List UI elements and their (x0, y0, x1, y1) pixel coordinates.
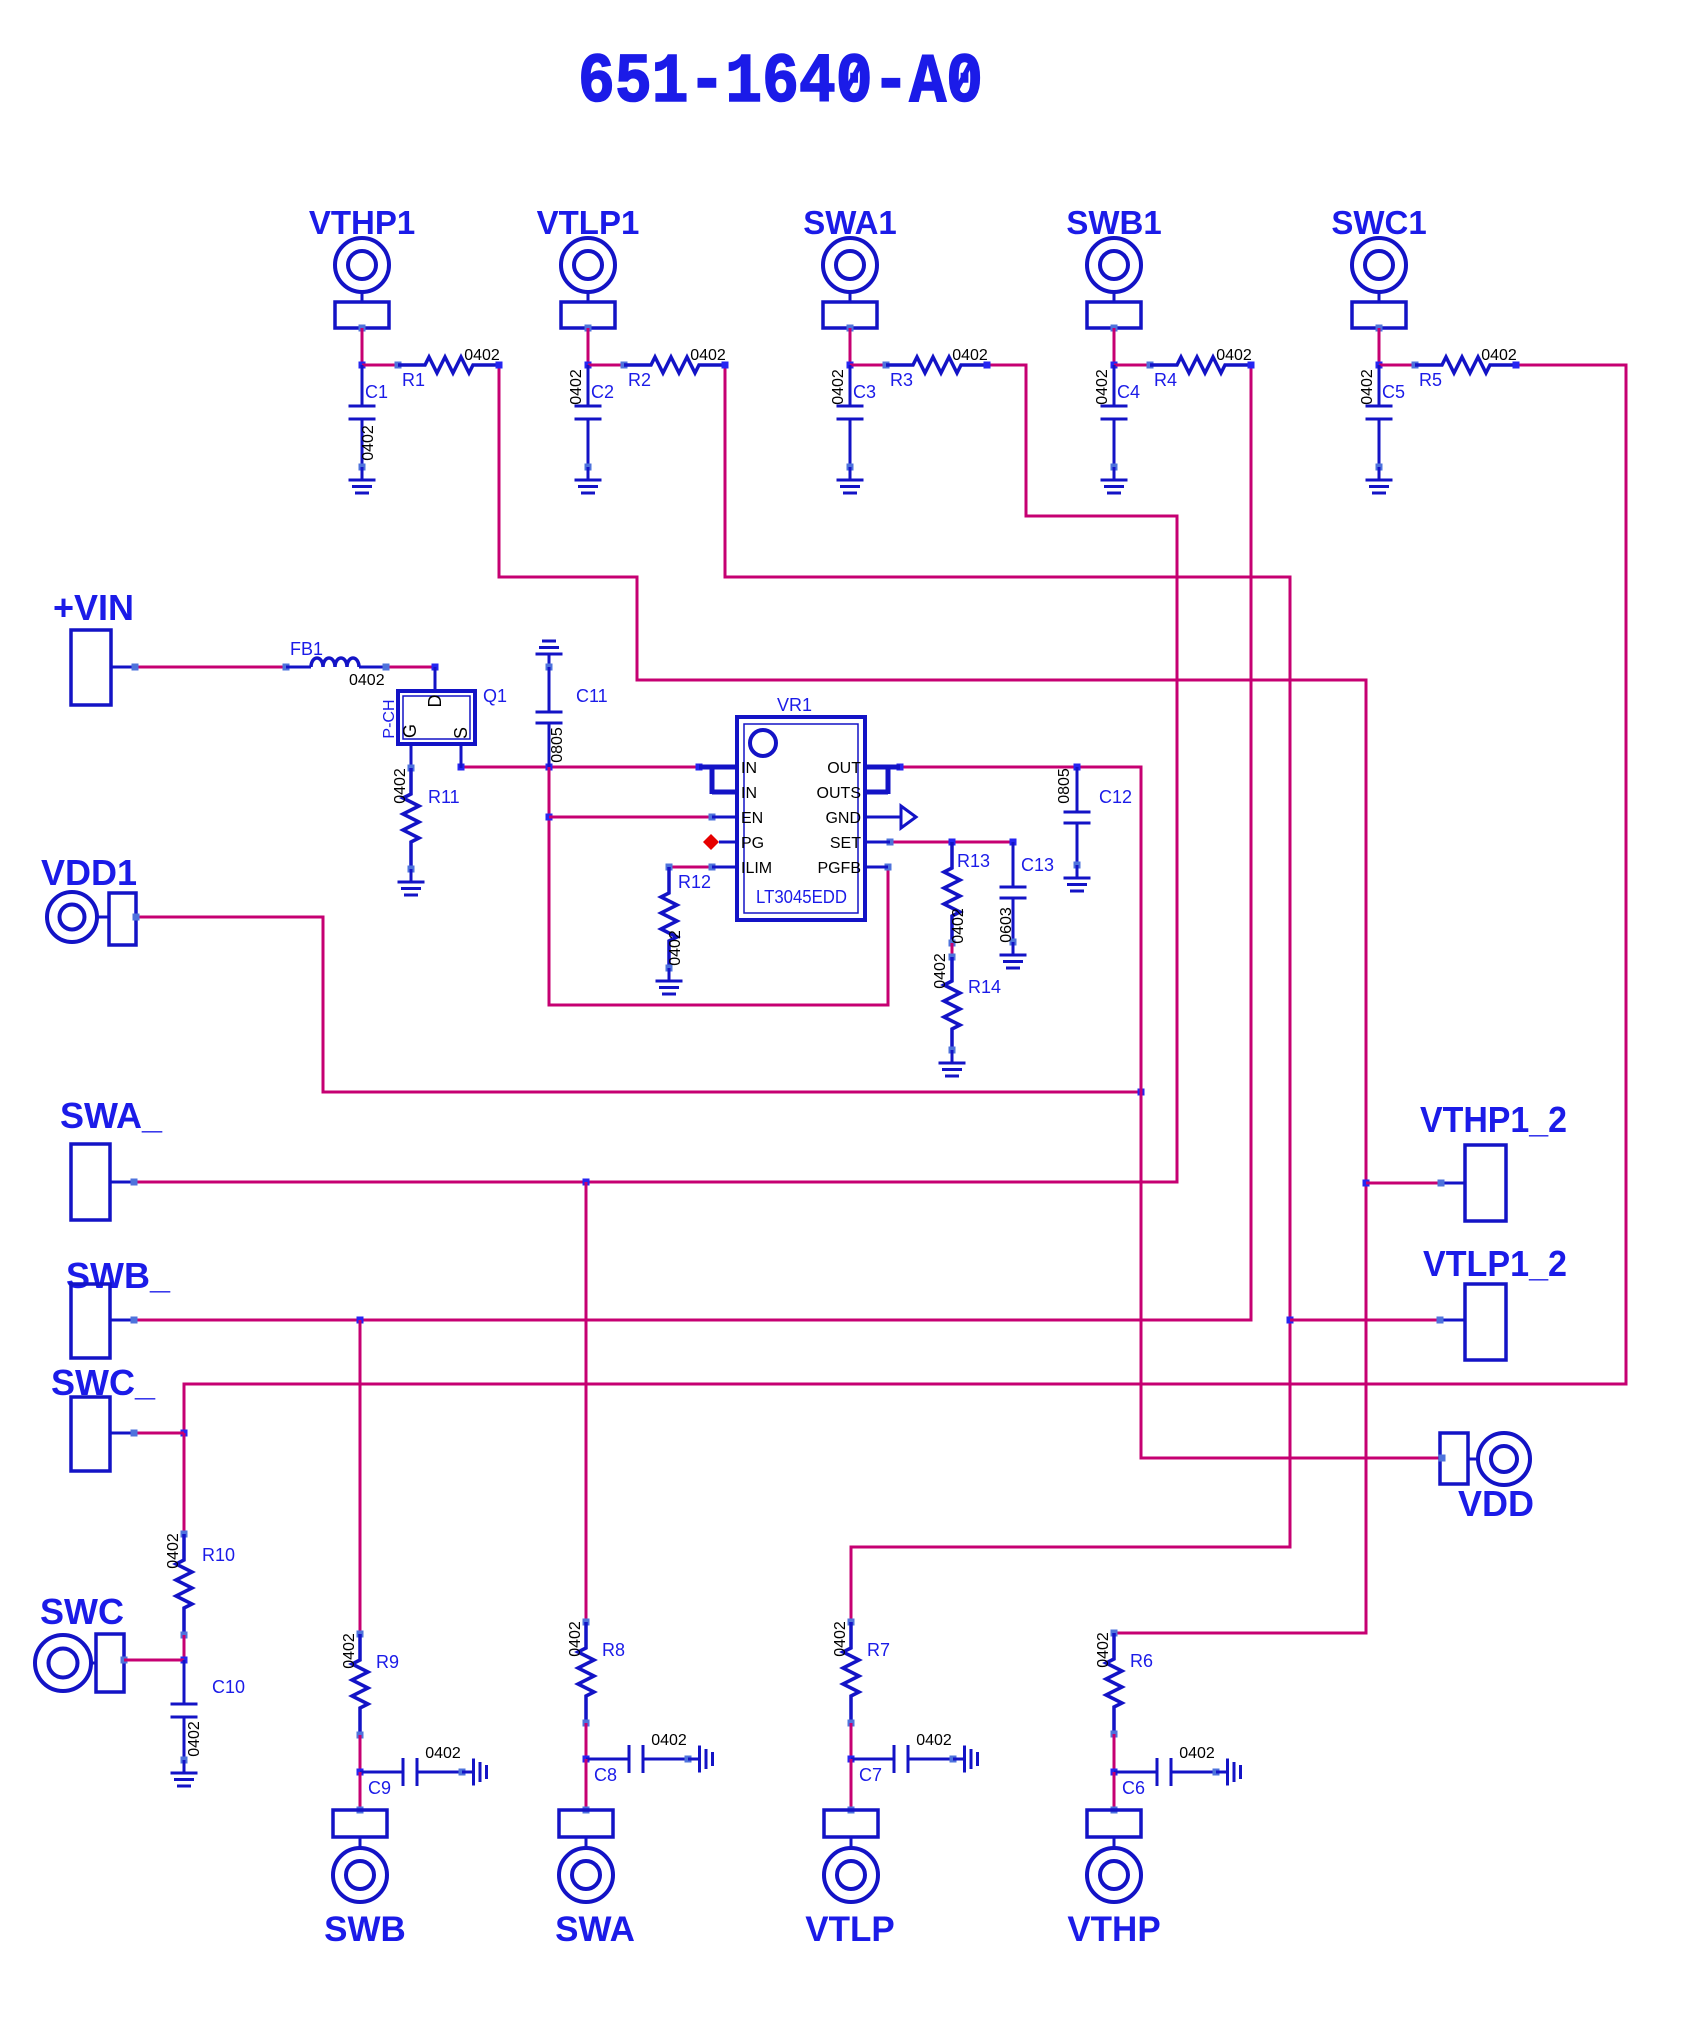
svg-text:R13: R13 (957, 851, 990, 871)
wire VTLP1 node to R2 (588, 362, 628, 369)
svg-text:C12: C12 (1099, 787, 1132, 807)
svg-text:PGFB: PGFB (817, 860, 861, 877)
wire SWA1 pad to node (847, 328, 854, 369)
connector VDD1 (41, 852, 140, 945)
svg-text:S: S (451, 727, 471, 739)
resistor R12 (661, 864, 711, 972)
wire net SWB1 R4 to SWB_ and R9 (134, 362, 1255, 1324)
wire SWC1 pad to node (1376, 328, 1383, 369)
resistor R4 (1150, 347, 1252, 390)
svg-text:SWB1: SWB1 (1066, 204, 1161, 241)
ground C9 (462, 1759, 487, 1786)
capacitor C13 (998, 842, 1054, 946)
svg-text:0402: 0402 (1095, 1632, 1112, 1668)
wire R8 to C8 node (583, 1723, 590, 1763)
svg-text:0402: 0402 (425, 1745, 461, 1762)
resistor R8 (567, 1619, 625, 1727)
svg-text:0402: 0402 (651, 1732, 687, 1749)
svg-text:LT3045EDD: LT3045EDD (756, 887, 847, 907)
wire SWA1 node to R3 (850, 362, 890, 369)
svg-text:OUT: OUT (827, 760, 861, 777)
Q1 pin S (451, 727, 471, 768)
svg-text:C9: C9 (368, 1778, 391, 1798)
svg-text:0402: 0402 (392, 768, 409, 804)
svg-text:0805: 0805 (1056, 768, 1073, 804)
svg-text:0402: 0402 (1216, 347, 1252, 364)
svg-text:VTHP: VTHP (1067, 1910, 1160, 1949)
svg-text:P-CH: P-CH (381, 699, 398, 738)
Q1 pin G (400, 724, 420, 768)
svg-text:C2: C2 (591, 382, 614, 402)
svg-text:0402: 0402 (360, 425, 377, 461)
connector VTHP1_2 (1420, 1099, 1567, 1221)
svg-text:0402: 0402 (950, 908, 967, 944)
wire branch to VTHP1_2 (1366, 1182, 1441, 1185)
resistor R14 (932, 953, 1001, 1053)
testpoint VTLP (805, 1807, 894, 1950)
connector VDD (1439, 1433, 1535, 1524)
svg-text:0402: 0402 (667, 930, 684, 966)
title 651-1640-A0 (578, 44, 983, 123)
svg-text:VDD: VDD (1458, 1483, 1534, 1524)
capacitor C5 (1359, 365, 1405, 471)
svg-text:EN: EN (741, 810, 763, 827)
wire SWC1 node to R5 (1379, 362, 1419, 369)
VR1 pin IN bracket (699, 760, 757, 802)
wire EN stub (549, 816, 712, 819)
wire VTLP1 pad to node (585, 328, 592, 369)
svg-text:VTHP1: VTHP1 (309, 204, 415, 241)
svg-text:C8: C8 (594, 1765, 617, 1785)
svg-text:VR1: VR1 (777, 695, 812, 715)
svg-text:R5: R5 (1419, 370, 1442, 390)
ground C11 (inverted) (536, 641, 563, 667)
capacitor C11 (536, 664, 608, 768)
svg-text:C11: C11 (576, 686, 608, 706)
capacitor C7 (851, 1732, 957, 1785)
ground C1 (349, 467, 376, 493)
svg-text:FB1: FB1 (290, 639, 323, 659)
svg-text:0402: 0402 (830, 369, 847, 405)
testpoint VTHP1 (309, 204, 415, 332)
testpoint VTHP (1067, 1807, 1160, 1950)
connector SWA_ (60, 1095, 163, 1220)
resistor R9 (341, 1631, 399, 1739)
svg-text:SET: SET (830, 835, 861, 852)
VR1 pin PGFB (817, 860, 888, 877)
capacitor C10 (171, 1660, 246, 1764)
wire net SET to R13 C13 (887, 839, 1017, 846)
svg-text:C10: C10 (212, 1677, 245, 1697)
svg-text:0402: 0402 (916, 1732, 952, 1749)
capacitor C4 (1094, 365, 1140, 471)
wire net VTHP1 R1 to VTHP1_2 and R6 (496, 362, 1370, 1634)
testpoint VTLP1 (537, 204, 640, 332)
ground C10 (171, 1760, 198, 1786)
ground C13 (1000, 942, 1027, 968)
svg-text:VTLP: VTLP (805, 1910, 894, 1949)
ground R14 (939, 1050, 966, 1076)
wire SWB1 node to R4 (1114, 362, 1154, 369)
svg-text:0402: 0402 (932, 953, 949, 989)
svg-text:OUTS: OUTS (817, 785, 861, 802)
connector SWC (35, 1591, 128, 1692)
Q1 pin D (425, 667, 445, 708)
svg-text:R11: R11 (428, 787, 460, 807)
wire branch SWA_ to R8 (585, 1182, 588, 1622)
wire SWC_ node down to R10 (183, 1433, 186, 1534)
svg-text:R6: R6 (1130, 1651, 1153, 1671)
svg-text:PG: PG (741, 835, 764, 852)
svg-text:VTLP1: VTLP1 (537, 204, 640, 241)
svg-text:C13: C13 (1021, 855, 1054, 875)
ground C4 (1101, 467, 1128, 493)
ground R12 (656, 968, 683, 994)
capacitor C6 (1114, 1745, 1220, 1798)
ground R11 (398, 869, 425, 895)
VR1 pin EN (712, 810, 763, 827)
svg-text:IN: IN (741, 760, 757, 777)
VR1 pin GND with no-connect triangle (825, 806, 916, 828)
resistor R11 (392, 765, 459, 873)
svg-text:R1: R1 (402, 370, 425, 390)
transistor Q1 P-CH MOSFET (381, 686, 507, 744)
connector SWC_ (51, 1362, 156, 1471)
svg-text:C1: C1 (365, 382, 388, 402)
wire SWB1 pad to node (1111, 328, 1118, 369)
svg-text:SWA1: SWA1 (803, 204, 897, 241)
svg-text:IN: IN (741, 785, 757, 802)
svg-text:0402: 0402 (832, 1621, 849, 1657)
svg-text:0805: 0805 (549, 727, 566, 763)
wire net SWC1 R5 to SWC_ and R10 (181, 362, 1627, 1437)
svg-text:Q1: Q1 (483, 686, 507, 706)
resistor R2 (624, 347, 726, 390)
testpoint SWB (324, 1807, 406, 1950)
wire net VTLP1 R2 to VTLP1_2 and R7 (722, 362, 1294, 1623)
VR1 pin ILIM (712, 860, 772, 877)
svg-text:R7: R7 (867, 1640, 890, 1660)
ground C8 (688, 1746, 713, 1773)
resistor R7 (832, 1619, 890, 1727)
connector VTLP1_2 (1423, 1243, 1567, 1360)
resistor R3 (886, 347, 988, 390)
resistor R6 (1095, 1630, 1153, 1738)
svg-text:VTHP1_2: VTHP1_2 (1420, 1099, 1567, 1140)
resistor R13 (944, 842, 990, 947)
svg-text:0402: 0402 (165, 1533, 182, 1569)
svg-text:0402: 0402 (567, 1621, 584, 1657)
svg-text:VDD1: VDD1 (41, 852, 137, 893)
resistor R1 (398, 347, 500, 390)
inductor FB1 (283, 639, 390, 689)
svg-text:C5: C5 (1382, 382, 1405, 402)
connector +VIN (53, 587, 139, 705)
svg-text:651-1640-A0: 651-1640-A0 (578, 44, 983, 123)
svg-text:SWB: SWB (324, 1910, 406, 1949)
VR1 pin OUT bracket (817, 760, 900, 802)
svg-text:C3: C3 (853, 382, 876, 402)
svg-text:SWA_: SWA_ (60, 1095, 163, 1136)
svg-text:0402: 0402 (1179, 1745, 1215, 1762)
regulator VR1 LT3045EDD (737, 695, 865, 920)
wire R6 to C6 node (1111, 1734, 1118, 1776)
ground C3 (837, 467, 864, 493)
svg-text:SWC: SWC (40, 1591, 124, 1632)
wire C9 node to SWB pad (359, 1772, 362, 1810)
svg-text:R4: R4 (1154, 370, 1177, 390)
svg-text:SWA: SWA (555, 1910, 635, 1949)
VR1 pin PG with no-connect (703, 834, 764, 852)
wire branch to VTLP1_2 (1290, 1319, 1440, 1322)
svg-text:R2: R2 (628, 370, 651, 390)
wire +VIN to FB1 (135, 666, 286, 669)
wire R10 to SWC node (181, 1635, 188, 1664)
svg-text:C7: C7 (859, 1765, 882, 1785)
wire R13 to R14 (951, 943, 954, 957)
svg-text:GND: GND (825, 810, 861, 827)
svg-text:0402: 0402 (341, 1633, 358, 1669)
svg-text:R9: R9 (376, 1652, 399, 1672)
svg-text:0402: 0402 (349, 672, 385, 689)
connector SWB_ (66, 1255, 171, 1358)
testpoint SWA1 (803, 204, 897, 332)
testpoint SWC1 (1331, 204, 1426, 332)
capacitor C1 (349, 365, 389, 471)
VR1 pin SET (830, 835, 890, 852)
wire VTHP1 node to R1 (362, 362, 402, 369)
capacitor C12 (1056, 767, 1132, 869)
testpoint SWB1 (1066, 204, 1161, 332)
wire R9 to C9 node (357, 1735, 364, 1776)
svg-text:G: G (400, 724, 420, 738)
wire C7 node to VTLP pad (850, 1759, 853, 1810)
wire net OUT to VDD (897, 764, 1443, 1459)
wire net IN Q1.S to VR1.IN (458, 764, 703, 771)
svg-text:VTLP1_2: VTLP1_2 (1423, 1243, 1567, 1284)
resistor R5 (1415, 347, 1517, 390)
svg-text:C4: C4 (1117, 382, 1140, 402)
wire SWC connector to node (124, 1659, 184, 1662)
svg-text:0402: 0402 (186, 1721, 203, 1757)
wire net VDD1 to OUT (136, 917, 1145, 1096)
svg-text:0603: 0603 (998, 907, 1015, 943)
svg-text:D: D (425, 695, 445, 708)
wire VTHP1 pad to node (359, 328, 366, 369)
resistor R10 (165, 1531, 235, 1639)
wire net SWA1 R3 to SWA_ and R8 (134, 362, 1177, 1186)
wire SWC_ connector stub (134, 1432, 184, 1435)
wire branch SWB_ to R9 (359, 1320, 362, 1634)
svg-text:0402: 0402 (1481, 347, 1517, 364)
svg-text:ILIM: ILIM (741, 860, 772, 877)
testpoint SWA (555, 1807, 635, 1950)
wire FB1 to Q1.D (386, 664, 439, 671)
svg-text:0402: 0402 (952, 347, 988, 364)
ground C7 (953, 1746, 978, 1773)
svg-text:SWC1: SWC1 (1331, 204, 1426, 241)
wire net EN PGFB loop (546, 767, 892, 1005)
wire C6 node to VTHP pad (1113, 1772, 1116, 1810)
svg-text:C6: C6 (1122, 1778, 1145, 1798)
wire C8 node to SWA pad (585, 1759, 588, 1810)
svg-text:R14: R14 (968, 977, 1001, 997)
wire R7 to C7 node (848, 1723, 855, 1763)
svg-text:+VIN: +VIN (53, 587, 134, 628)
capacitor C8 (586, 1732, 692, 1785)
svg-text:0402: 0402 (1094, 369, 1111, 405)
svg-text:R3: R3 (890, 370, 913, 390)
wire net ILIM to R12 (669, 864, 716, 871)
svg-text:0402: 0402 (1359, 369, 1376, 405)
svg-text:0402: 0402 (690, 347, 726, 364)
svg-text:0402: 0402 (464, 347, 500, 364)
svg-text:R8: R8 (602, 1640, 625, 1660)
capacitor C9 (360, 1745, 466, 1798)
ground C5 (1366, 467, 1393, 493)
svg-text:0402: 0402 (568, 369, 585, 405)
ground C2 (575, 467, 602, 493)
ground C12 (1064, 865, 1091, 891)
svg-text:R12: R12 (678, 872, 711, 892)
capacitor C3 (830, 365, 876, 471)
capacitor C2 (568, 365, 614, 471)
svg-text:SWB_: SWB_ (66, 1255, 171, 1296)
svg-text:R10: R10 (202, 1545, 235, 1565)
ground C6 (1216, 1759, 1241, 1786)
